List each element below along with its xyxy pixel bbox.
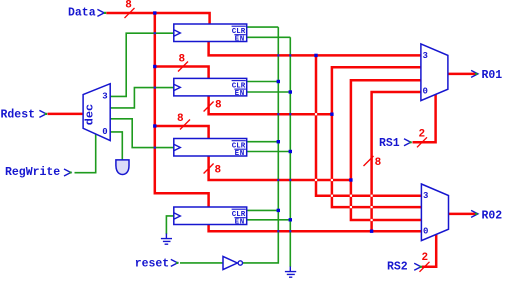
crossing tie en x reg3out (289, 179, 291, 181)
svg-text:RegWrite: RegWrite (5, 166, 60, 179)
crossing tie en x reg2out (289, 113, 291, 115)
wire dec out2 to reg2 clock (110, 88, 174, 108)
crossing hole busD x mux2in1 (371, 219, 373, 221)
svg-text:8: 8 (375, 157, 382, 169)
junction en reg4 (289, 218, 292, 221)
crossing tie clr x reg3out (277, 179, 279, 181)
svg-text:8: 8 (215, 164, 222, 176)
crossing hole busA x reg2out (315, 113, 317, 115)
inverter U9 bubble (238, 261, 242, 265)
svg-text:3: 3 (102, 91, 107, 101)
wire reg4 EN (247, 219, 291, 221)
crossing tie databus x clk2 (154, 87, 156, 89)
register U2 EN overline (234, 88, 245, 90)
junction data bus reg3 branch (153, 124, 156, 127)
svg-text:EN: EN (235, 36, 245, 44)
crossing hole busB x reg3out (331, 179, 333, 181)
terminal marker Rdest (39, 110, 46, 117)
svg-text:0: 0 (423, 226, 428, 236)
svg-text:Rdest: Rdest (1, 108, 36, 121)
wire reg4 CLR (247, 209, 279, 211)
wire reg4 clock to ground (166, 216, 173, 234)
junction clr reg4 (277, 209, 280, 212)
register U4 clock chevron (174, 213, 181, 219)
wire RegWrite to dec enable (75, 134, 96, 173)
svg-text:RS2: RS2 (387, 261, 408, 274)
wire reset to inverter (180, 262, 223, 264)
wire reg4 output to mux2 in0 (209, 224, 422, 231)
bus slash RS1 (417, 137, 427, 147)
wire bus C vertical mux1 in1 / mux2 in1 (351, 80, 422, 220)
wire bus D vertical to mux1 in0 (372, 92, 421, 231)
terminal green tick R02 (475, 213, 477, 215)
svg-text:3: 3 (423, 51, 428, 61)
ground 1 stem and bars (161, 234, 172, 245)
wire reg2 input branch (155, 67, 209, 80)
junction en reg3 (289, 150, 292, 153)
terminal green tick R01 (475, 73, 477, 75)
wire bus A vertical to mux2 in3 (316, 55, 421, 195)
register U1 CLR overline (232, 25, 246, 27)
svg-text:0: 0 (423, 86, 428, 96)
crossing tie databus x clk3 (154, 147, 156, 149)
svg-text:2: 2 (422, 252, 429, 264)
svg-text:dec: dec (84, 104, 96, 126)
register U4 EN overline (234, 217, 245, 219)
junction reg4out busD (370, 230, 373, 233)
terminal marker R02 (471, 210, 478, 217)
junction reg3out busC (349, 178, 352, 181)
wire bus B vertical mux1 in2 / mux2 in2 (332, 67, 422, 207)
bus slash reg2 input (178, 62, 188, 72)
decoder U7 body (83, 84, 110, 141)
register U1 EN overline (234, 34, 245, 36)
wire inverter output to CLR chain (243, 27, 279, 263)
wire reg3 EN (247, 151, 291, 153)
bus slash Data (125, 8, 135, 18)
junction reg2out busB (330, 113, 333, 116)
bus slash reg3 input (180, 120, 190, 130)
junction data bus top (153, 11, 156, 14)
svg-text:R02: R02 (482, 209, 503, 222)
crossing tie en x reg4out (289, 230, 291, 232)
wire Rdest to dec (48, 113, 84, 116)
bus slash RS2 (420, 262, 430, 272)
svg-text:8: 8 (177, 113, 184, 125)
terminal marker RS2 (414, 263, 421, 270)
junction data bus reg2 branch (153, 65, 156, 68)
register U4 CLR overline (232, 208, 246, 210)
svg-text:8: 8 (215, 100, 222, 112)
wire reg1 CLR (247, 26, 279, 28)
svg-text:3: 3 (423, 191, 428, 201)
wire mux1 select from RS1 (413, 94, 436, 142)
terminal marker Data (97, 9, 104, 16)
svg-text:0: 0 (102, 127, 107, 137)
svg-text:8: 8 (125, 0, 132, 11)
wire reg1 output to mux1 in3 (209, 41, 421, 55)
wire reg1 EN (247, 36, 291, 38)
svg-text:EN: EN (235, 150, 245, 158)
wire dec out3 to reg1 clock (110, 33, 174, 96)
crossing tie clr x reg1out (277, 54, 279, 56)
terminal marker RegWrite (64, 169, 71, 176)
junction reg1out busA (314, 54, 317, 57)
crossing hole busD x mux2in2 (371, 206, 373, 208)
svg-text:RS1: RS1 (379, 137, 400, 150)
wire reg3 CLR (247, 141, 279, 143)
wire reg2 output (209, 95, 332, 114)
terminal green tick RegWrite (69, 171, 71, 173)
junction clr reg2 (277, 80, 280, 83)
crossing hole busC x mux2in3 (350, 195, 352, 197)
terminal marker RS1 (404, 139, 411, 146)
wire EN chain vertical to ground (289, 37, 291, 267)
wire reg3 output (209, 156, 351, 180)
register U3 clock chevron (174, 144, 181, 150)
register U3 body (174, 139, 247, 157)
crossing tie en x reg1out (289, 54, 291, 56)
crossing tie databus x clk1 (154, 32, 156, 34)
terminal green tick RS1 (409, 141, 411, 143)
bus slash busD (364, 156, 374, 166)
wire dec out0 to gate (110, 132, 122, 160)
terminal green tick RS2 (420, 266, 422, 268)
register U2 body (174, 78, 247, 96)
crossing tie clr x reg4out (277, 230, 279, 232)
crossing hole busA x reg3out (315, 179, 317, 181)
svg-text:reset: reset (135, 257, 170, 270)
svg-text:8: 8 (179, 53, 186, 65)
svg-text:Data: Data (68, 7, 96, 20)
wire reg2 EN (247, 91, 291, 93)
mux U6 body (421, 184, 448, 241)
terminal green tick reset (176, 262, 178, 264)
register U3 CLR overline (232, 140, 246, 142)
bus slash reg2 output (204, 102, 214, 112)
wire reg3 input branch (155, 126, 209, 140)
wire Data horizontal (106, 13, 209, 25)
crossing hole busC x mux2in2 (350, 206, 352, 208)
terminal marker reset (171, 259, 178, 266)
crossing tie clr x reg2out (277, 113, 279, 115)
crossing hole busD x mux2in3 (371, 195, 373, 197)
wire mux2 select from RS2 (422, 234, 436, 266)
junction en reg2 (289, 90, 292, 93)
gate U8 body (116, 160, 129, 175)
bus slash reg3 output (204, 164, 214, 174)
junction clr reg3 (277, 140, 280, 143)
wire reg2 CLR (247, 81, 279, 83)
mux U5 body (421, 44, 448, 101)
svg-text:2: 2 (419, 128, 426, 140)
register U2 CLR overline (232, 80, 246, 82)
register U1 body (174, 24, 247, 42)
register U2 clock chevron (174, 84, 181, 90)
svg-text:EN: EN (235, 90, 245, 98)
wire mux2 output (449, 213, 476, 216)
inverter U9 body (223, 256, 237, 269)
svg-text:EN: EN (235, 219, 245, 227)
wire mux1 output (448, 73, 476, 76)
register U4 body (174, 207, 247, 225)
wire dec out1 to reg3 clock (110, 119, 174, 148)
crossing hole busB x mux2in3 (331, 195, 333, 197)
register U3 EN overline (234, 148, 245, 150)
terminal green tick Data (104, 12, 106, 14)
terminal green tick Rdest (45, 113, 47, 115)
terminal marker R01 (471, 70, 478, 77)
register U1 clock chevron (174, 30, 181, 36)
wire Data bus vertical (155, 13, 209, 208)
ground 2 stem and bars (285, 267, 296, 278)
svg-text:R01: R01 (482, 69, 503, 82)
